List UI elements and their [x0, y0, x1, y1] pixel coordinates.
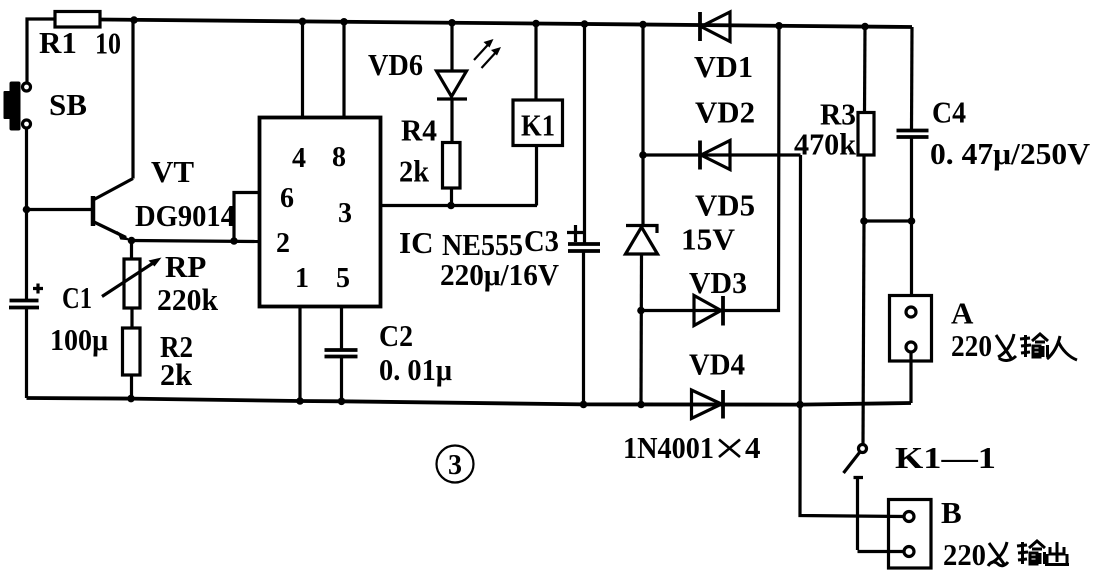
svg-text:1N4001: 1N4001	[623, 430, 714, 465]
svg-text:2k: 2k	[160, 357, 193, 392]
svg-text:470k: 470k	[794, 127, 857, 162]
svg-text:VD1: VD1	[694, 49, 753, 84]
svg-text:DG9014: DG9014	[135, 198, 235, 233]
svg-text:A: A	[951, 296, 974, 331]
svg-text:C4: C4	[932, 95, 966, 130]
svg-text:IC: IC	[399, 225, 433, 260]
svg-text:220k: 220k	[157, 282, 219, 317]
svg-text:VD3: VD3	[689, 265, 747, 300]
svg-text:3: 3	[448, 450, 462, 481]
svg-text:C2: C2	[379, 318, 413, 353]
svg-text:0. 47μ/250V: 0. 47μ/250V	[930, 136, 1091, 171]
svg-text:220: 220	[951, 328, 992, 363]
svg-text:R4: R4	[401, 113, 437, 148]
svg-text:C3: C3	[524, 223, 559, 258]
svg-text:VD4: VD4	[689, 347, 745, 382]
svg-text:100μ: 100μ	[50, 322, 108, 357]
svg-text:10: 10	[95, 26, 121, 61]
svg-text:VD5: VD5	[695, 188, 755, 223]
svg-text:R1: R1	[39, 25, 77, 60]
svg-text:B: B	[941, 495, 962, 530]
svg-text:3: 3	[338, 198, 352, 229]
svg-text:220: 220	[943, 537, 986, 572]
svg-text:C1: C1	[62, 280, 92, 315]
svg-text:VD6: VD6	[368, 47, 423, 82]
svg-text:4: 4	[745, 430, 761, 465]
svg-text:VT: VT	[151, 154, 194, 189]
svg-text:220μ/16V: 220μ/16V	[440, 257, 560, 292]
svg-text:5: 5	[336, 263, 350, 294]
svg-text:SB: SB	[49, 87, 87, 122]
svg-text:2k: 2k	[399, 154, 430, 189]
svg-text:K1: K1	[521, 108, 555, 143]
svg-text:VD2: VD2	[695, 95, 755, 130]
svg-text:1: 1	[295, 263, 309, 294]
svg-text:2: 2	[276, 228, 290, 259]
svg-text:K1—1: K1—1	[895, 440, 996, 475]
svg-text:RP: RP	[165, 249, 206, 284]
svg-text:15V: 15V	[681, 222, 736, 257]
svg-text:0. 01μ: 0. 01μ	[379, 352, 452, 387]
svg-text:6: 6	[280, 183, 294, 214]
svg-text:8: 8	[332, 142, 346, 173]
svg-text:4: 4	[292, 143, 306, 174]
